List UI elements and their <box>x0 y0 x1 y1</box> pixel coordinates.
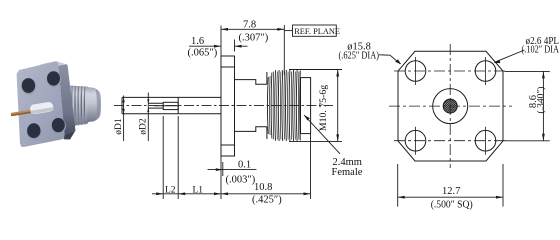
svg-text:(.625″ DIA): (.625″ DIA) <box>339 51 380 62</box>
svg-text:L2: L2 <box>165 186 176 196</box>
svg-text:(.425″): (.425″) <box>252 195 282 206</box>
svg-text:Female: Female <box>332 167 363 178</box>
svg-text:øD1: øD1 <box>114 118 124 135</box>
svg-text:M10. 75-6g: M10. 75-6g <box>318 85 329 131</box>
svg-text:øD2: øD2 <box>138 118 148 135</box>
svg-text:7.8: 7.8 <box>243 20 256 31</box>
svg-text:10.8: 10.8 <box>254 182 272 193</box>
svg-text:(.307″): (.307″) <box>239 33 269 44</box>
svg-text:(.102″ DIA: (.102″ DIA <box>522 45 560 56</box>
svg-text:(.340″): (.340″) <box>536 87 547 114</box>
svg-text:L1: L1 <box>193 186 204 196</box>
svg-text:(.065″): (.065″) <box>188 48 218 59</box>
svg-text:(.003″): (.003″) <box>226 175 256 186</box>
svg-text:0.1: 0.1 <box>238 160 251 171</box>
svg-text:12.7: 12.7 <box>442 186 460 197</box>
svg-text:(.500″ SQ): (.500″ SQ) <box>431 200 473 211</box>
svg-text:REF. PLANE: REF. PLANE <box>294 27 340 36</box>
svg-text:1.6: 1.6 <box>191 36 204 47</box>
